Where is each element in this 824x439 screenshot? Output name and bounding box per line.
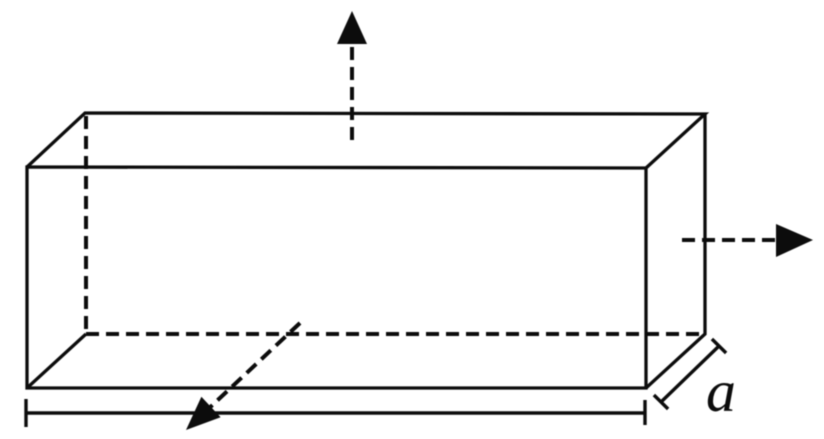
svg-text:a: a — [706, 358, 736, 424]
